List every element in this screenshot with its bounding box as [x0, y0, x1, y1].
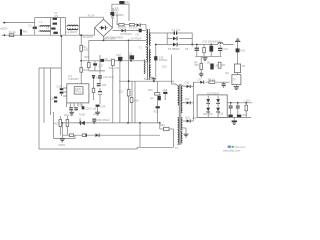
ground IC2	[234, 85, 240, 90]
wire bridge minus stub	[103, 36, 105, 40]
diode D10	[183, 82, 194, 88]
svg-text:D15: D15	[162, 65, 167, 68]
IC1 pins bottom	[67, 103, 82, 107]
capacitor CY1	[51, 18, 58, 36]
svg-text:www.dzsc.com: www.dzsc.com	[223, 148, 240, 152]
resistor R8	[208, 79, 215, 84]
wire N bottom	[2, 34, 80, 36]
svg-text:D14: D14	[240, 50, 245, 53]
fuse F1	[9, 31, 16, 37]
resistor R18	[130, 98, 139, 103]
wire secondary gnd vertical	[155, 45, 157, 78]
svg-text:D3 FR107: D3 FR107	[121, 33, 133, 36]
capacitor C13	[229, 103, 233, 118]
ground T1 secondary	[152, 77, 156, 81]
wire +12V rail	[227, 100, 252, 103]
svg-text:C16: C16	[219, 113, 224, 116]
transformer T1 primary winding	[146, 30, 147, 48]
label output caps	[203, 41, 222, 44]
capacitor C11	[218, 45, 228, 57]
svg-text:2200uF: 2200uF	[159, 59, 168, 62]
diode D11	[183, 98, 194, 104]
svg-text:R26: R26	[160, 124, 165, 127]
ground T2	[183, 128, 189, 137]
svg-text:C8 470uF: C8 470uF	[130, 37, 141, 40]
capacitor C12	[222, 82, 226, 88]
wire filter top	[35, 17, 66, 19]
wire secondary out	[156, 44, 234, 46]
svg-text:R23 10K: R23 10K	[64, 114, 74, 117]
capacitor C14	[236, 103, 240, 118]
label left of rail	[192, 117, 197, 120]
caps below IC	[69, 105, 97, 111]
inductor L3	[218, 43, 223, 44]
svg-text:472: 472	[54, 15, 59, 18]
node L	[4, 22, 6, 24]
ground symbol secondary	[202, 56, 207, 60]
capacitor C16b	[237, 115, 241, 118]
resistor R6	[218, 62, 225, 68]
svg-text:D12: D12	[185, 116, 190, 119]
ground bottom left	[58, 135, 66, 147]
choke L1	[39, 21, 51, 31]
vertical x140	[139, 123, 141, 147]
svg-text:NTC: NTC	[125, 1, 130, 4]
inner loop bottom-left	[54, 112, 75, 138]
transformer T2 secondary upper	[181, 86, 182, 103]
capacitor CX1	[29, 23, 37, 36]
ferrite FB1	[101, 59, 105, 62]
center vertical wires	[120, 40, 135, 123]
capacitor C18	[116, 54, 122, 60]
node b5	[139, 122, 141, 124]
transformer T1 lower-left winding	[144, 60, 145, 74]
IC2 regulator box	[225, 72, 241, 85]
opto diode2	[216, 108, 220, 118]
node fb	[60, 35, 62, 37]
diode D2	[137, 23, 141, 26]
svg-text:C22 47uF: C22 47uF	[103, 76, 114, 79]
capacitor CY3	[46, 27, 56, 30]
node out2	[196, 44, 198, 46]
IC1 box	[67, 84, 89, 103]
resistor R13	[109, 59, 120, 123]
svg-text:C18: C18	[116, 54, 121, 57]
svg-text:C8 100uF/400V: C8 100uF/400V	[106, 37, 124, 40]
svg-text:C20: C20	[50, 98, 55, 101]
node dc1	[103, 40, 105, 42]
opto LED2	[206, 108, 210, 118]
ground cap column	[95, 112, 100, 115]
capacitor CY4	[53, 32, 57, 34]
svg-text:Q1: Q1	[129, 52, 133, 55]
IC1 label	[68, 75, 79, 81]
capacitor C32	[154, 56, 168, 62]
IC1 pin marks left	[63, 88, 67, 96]
outer loop bottom	[39, 133, 174, 149]
watermark	[223, 146, 245, 153]
svg-text:AC 220V: AC 220V	[83, 36, 93, 39]
diode D1	[112, 8, 125, 19]
svg-text:R21: R21	[154, 110, 159, 113]
ground below IC	[69, 110, 74, 115]
snubber loop secondary	[167, 33, 192, 45]
diode D14	[236, 48, 246, 52]
diode D13	[95, 133, 99, 137]
wire +B row	[113, 30, 147, 32]
svg-text:TROL: TROL	[75, 91, 82, 94]
capacitor C10 electrolytic	[209, 45, 213, 57]
wire aux rail y82	[193, 81, 229, 83]
node out3	[210, 44, 212, 46]
capacitor C2 label	[54, 12, 59, 18]
diode D8 right of IC	[92, 75, 100, 88]
vertical x61 lower	[61, 123, 63, 135]
svg-text:C5 102: C5 102	[129, 27, 138, 30]
transformer T2 core	[179, 84, 181, 145]
diode D3	[121, 29, 133, 36]
node b1	[61, 122, 63, 124]
resistor R3	[129, 24, 138, 30]
svg-text:C17: C17	[99, 64, 104, 67]
node b6	[159, 122, 161, 124]
wire AC to bridge bottom	[80, 28, 95, 39]
varistor RV1	[20, 29, 28, 35]
svg-text:+12V: +12V	[244, 100, 250, 103]
LED D6	[207, 61, 220, 69]
capacitor C7	[172, 29, 181, 35]
wire source	[89, 40, 105, 71]
labels bottom row	[64, 113, 98, 117]
diode D7	[198, 79, 205, 84]
capacitor C15b	[228, 115, 232, 118]
svg-text:C30 470uF: C30 470uF	[97, 119, 110, 122]
resistor R9	[245, 103, 248, 118]
node dc2	[128, 40, 130, 42]
node startup	[80, 34, 82, 36]
ground top right	[235, 39, 240, 42]
node b2	[79, 122, 81, 124]
svg-text:+5V: +5V	[192, 117, 197, 120]
node bridge+	[112, 18, 114, 28]
svg-text:R14 0.33: R14 0.33	[109, 67, 120, 70]
wire L top	[3, 22, 35, 24]
node gate	[80, 60, 82, 62]
transistor Q1	[129, 52, 135, 59]
capacitor C29	[92, 119, 110, 123]
node b4	[127, 122, 129, 124]
capacitor C31	[66, 116, 69, 135]
wire secondary top	[153, 32, 167, 34]
feedback bundle verticals	[39, 36, 61, 149]
AC input terminal labels	[0, 28, 8, 31]
svg-text:C19: C19	[56, 85, 61, 88]
capacitor C21	[98, 88, 102, 104]
resistor R24	[69, 134, 73, 137]
svg-text:C24: C24	[100, 105, 105, 108]
ground symbol led	[199, 73, 204, 77]
labels above rail	[144, 78, 154, 81]
NTC loop wire	[112, 4, 129, 21]
svg-text:R12: R12	[243, 114, 248, 117]
transformer T1 secondary winding upper	[150, 33, 154, 46]
node q1	[119, 60, 121, 62]
transistor Q2 cluster	[148, 81, 161, 100]
node N	[4, 34, 6, 36]
transformer T1 core	[148, 29, 150, 80]
cap column lower	[96, 105, 106, 112]
svg-text:R17: R17	[119, 91, 124, 94]
node r1	[230, 102, 232, 104]
svg-text:C29: C29	[93, 113, 98, 116]
diode D5	[168, 43, 180, 51]
capacitor C28	[163, 89, 168, 100]
diode D4	[173, 37, 178, 41]
svg-text:C10 2200uF/16V: C10 2200uF/16V	[203, 41, 222, 44]
transformer T2 secondary lower	[181, 103, 182, 143]
svg-text:C23: C23	[102, 84, 107, 87]
wire bridge top to NTC loop	[103, 17, 105, 19]
resistor R15	[84, 56, 90, 68]
wire stub	[34, 18, 36, 23]
capacitor C17	[93, 63, 104, 71]
capacitor C9 electrolytic	[192, 45, 199, 57]
svg-text:IC2: IC2	[225, 72, 230, 75]
resistor R5	[194, 56, 202, 73]
VCC cap column top	[98, 74, 114, 84]
thermistor NTC1	[114, 1, 130, 12]
svg-text:D5 SB560: D5 SB560	[168, 48, 180, 51]
svg-text:R20: R20	[148, 89, 153, 92]
wire bottom row2	[62, 134, 160, 136]
resistor R7	[234, 64, 245, 73]
transformer T2 primary lower	[175, 118, 179, 151]
svg-text:R15: R15	[84, 56, 89, 59]
svg-text:R22: R22	[54, 123, 59, 126]
resistor R4	[203, 45, 206, 57]
resistor R22	[54, 116, 61, 135]
svg-text:330: 330	[194, 64, 199, 67]
capacitor CY2	[53, 23, 57, 25]
capacitor C4 on loop	[110, 7, 118, 15]
resistor R25	[82, 134, 86, 137]
startup resistor chain	[80, 35, 89, 84]
transformer T1 secondary winding mid	[150, 50, 151, 63]
wire bottom row1	[62, 122, 160, 124]
resistor R2	[118, 24, 127, 30]
svg-text:TOP246Y: TOP246Y	[68, 78, 79, 81]
svg-text:C7 471: C7 471	[172, 29, 181, 32]
mosfet area wire	[81, 55, 143, 73]
opto transistor	[216, 96, 220, 108]
svg-text:C28: C28	[163, 89, 168, 92]
node r2	[237, 102, 239, 104]
optocoupler box IC3	[197, 92, 227, 117]
labels bottom right	[203, 113, 248, 118]
resistor R26	[160, 123, 174, 133]
svg-text:TL431: TL431	[79, 113, 87, 116]
svg-text:1N4007: 1N4007	[115, 14, 124, 17]
VCC cap 2	[97, 83, 107, 87]
capacitor C6	[136, 29, 142, 37]
svg-text:R18: R18	[134, 99, 139, 102]
opto LED1	[206, 96, 210, 108]
resistor R16	[92, 88, 95, 100]
node r3	[245, 102, 247, 104]
node pb2	[153, 80, 155, 82]
svg-text:C11: C11	[223, 48, 228, 51]
svg-text:L2 30mH: L2 30mH	[67, 31, 77, 34]
capacitor C19 left of IC	[56, 85, 63, 96]
wire DC minus rail	[89, 39, 146, 41]
zener TL431	[80, 118, 85, 125]
wire AC to bridge top	[80, 15, 104, 18]
bridge rectifier BR1	[95, 19, 116, 40]
svg-text:GND1: GND1	[58, 144, 66, 147]
node q2	[130, 60, 132, 62]
node pb1	[128, 80, 130, 82]
svg-text:D10: D10	[185, 82, 190, 85]
svg-text:C26 0.1uF: C26 0.1uF	[85, 107, 97, 110]
wire +B right rail	[237, 42, 239, 75]
svg-text:AC IN: AC IN	[88, 15, 95, 18]
node out1	[191, 44, 193, 46]
svg-text:R11 C15: R11 C15	[203, 113, 213, 116]
wire left aux	[192, 82, 194, 121]
ground rail secondary	[195, 55, 221, 57]
components below-left of IC	[50, 97, 57, 103]
wire bottom rail right	[197, 116, 251, 118]
svg-text:R19 C27: R19 C27	[144, 78, 154, 81]
transformer T2 primary winding	[176, 84, 179, 105]
svg-text:R10: R10	[83, 69, 88, 72]
resistor R17	[119, 90, 130, 96]
node sg	[155, 44, 157, 46]
diode D12	[183, 116, 194, 122]
choke L2	[66, 17, 80, 35]
svg-text:2M2: 2M2	[83, 48, 88, 51]
cluster below Q2	[154, 100, 160, 123]
node b3	[93, 122, 95, 124]
wire to T2	[171, 55, 175, 85]
wire filter vertical	[59, 18, 61, 36]
snubber loop wire	[117, 14, 146, 29]
svg-text:RV1: RV1	[23, 30, 28, 33]
transformer T1 secondary winding lower	[150, 65, 154, 78]
svg-text:D11: D11	[185, 98, 190, 101]
transformer T1 aux winding	[139, 47, 148, 63]
ground bottom right	[232, 117, 237, 124]
wire primary bottom rail	[119, 80, 174, 82]
